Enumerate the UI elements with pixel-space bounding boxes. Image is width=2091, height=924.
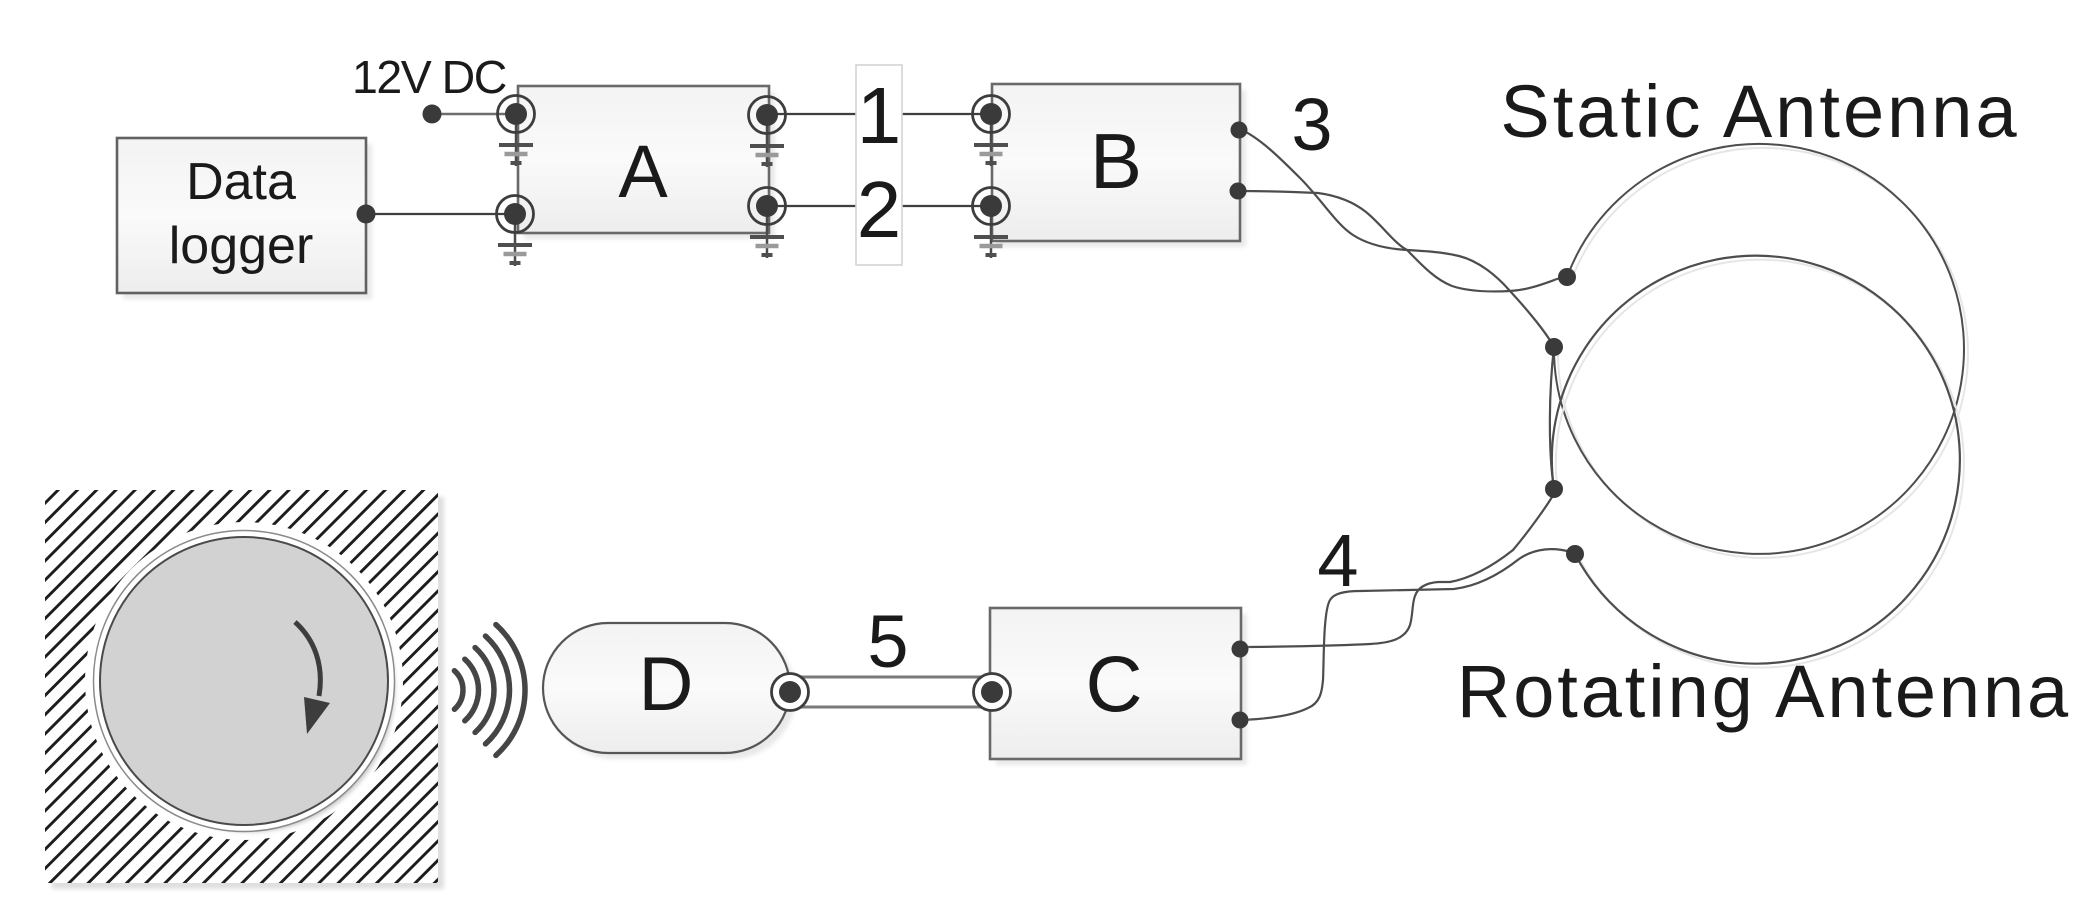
connector: B upper-left coax with ground bbox=[973, 96, 1010, 167]
svg-text:Data: Data bbox=[186, 153, 296, 211]
node: static loop terminal lower bbox=[1545, 338, 1563, 356]
rotating wheel hatched mount bbox=[45, 490, 444, 889]
node: C output dot lower bbox=[1232, 712, 1249, 729]
svg-text:D: D bbox=[639, 642, 694, 727]
connector: A lower-left coax with ground bbox=[497, 196, 534, 267]
svg-text:Rotating Antenna: Rotating Antenna bbox=[1457, 650, 2071, 733]
svg-text:5: 5 bbox=[867, 600, 908, 683]
connector: A upper-right coax with ground bbox=[749, 97, 786, 168]
link 1 label box bbox=[856, 65, 902, 265]
wire: twisted pair strand from C lower output to rotating loop lower terminal bbox=[1240, 549, 1575, 720]
wire: twisted pair strand from C upper output to rotating loop upper terminal bbox=[1239, 490, 1555, 647]
connector: A lower-right coax with ground bbox=[749, 188, 786, 259]
node: B output dot upper bbox=[1231, 122, 1248, 139]
svg-text:12V DC: 12V DC bbox=[352, 51, 506, 103]
node: rotating loop terminal lower bbox=[1566, 545, 1584, 563]
coax cable 5 from D to C (upper line) bbox=[795, 676, 988, 679]
connector: C input coax bbox=[974, 674, 1011, 711]
node: rotating loop terminal upper bbox=[1545, 480, 1563, 498]
connector: D output coax bbox=[772, 674, 809, 711]
wire: twisted pair strand from B lower output to static loop lower terminal bbox=[1240, 129, 1554, 347]
rotating wheel shadow bbox=[107, 544, 395, 832]
wire: A right to B left, line 2 bbox=[767, 205, 991, 207]
svg-text:Static Antenna: Static Antenna bbox=[1500, 70, 2019, 153]
svg-text:4: 4 bbox=[1317, 519, 1358, 602]
module B box bbox=[992, 84, 1246, 247]
svg-text:2: 2 bbox=[857, 165, 902, 254]
svg-text:3: 3 bbox=[1291, 83, 1332, 166]
wire: data logger to module A lower connector bbox=[366, 213, 515, 215]
svg-text:logger: logger bbox=[169, 217, 314, 275]
rotating wheel clearance bbox=[85, 522, 403, 840]
connector: A upper-left coax with ground bbox=[498, 96, 535, 167]
rotating antenna loop bbox=[1552, 256, 1960, 664]
svg-text:1: 1 bbox=[857, 71, 902, 160]
reader module D stadium bbox=[543, 623, 796, 759]
rotating wheel outer ring bbox=[94, 531, 395, 832]
node: data logger output junction dot bbox=[357, 205, 376, 224]
module C box bbox=[990, 608, 1247, 765]
svg-text:B: B bbox=[1090, 117, 1142, 205]
node: static loop terminal upper bbox=[1558, 268, 1576, 286]
module A box bbox=[518, 86, 775, 239]
rotating wheel disk bbox=[100, 537, 388, 825]
wire: A right to B left, line 1 bbox=[767, 113, 991, 115]
svg-text:C: C bbox=[1085, 639, 1142, 728]
node: C output dot upper bbox=[1232, 641, 1249, 658]
wireless waves from wheel to reader D bbox=[454, 625, 525, 756]
wire: 12V DC feed to module A upper connector bbox=[432, 113, 516, 115]
wire: twisted pair strand from B upper output to static loop upper terminal bbox=[1239, 191, 1567, 291]
wire: link between loop feed points B and C bbox=[1550, 347, 1554, 489]
data logger box bbox=[117, 138, 372, 299]
rotating antenna loop shadow bbox=[1556, 260, 1964, 668]
rotation direction arrow bbox=[295, 622, 330, 734]
node: 12V DC terminal dot bbox=[423, 105, 442, 124]
static antenna loop bbox=[1554, 144, 1964, 554]
static antenna loop shadow bbox=[1558, 148, 1968, 558]
connector: B lower-left coax with ground bbox=[973, 188, 1010, 259]
coax cable 5 from D to C (lower line) bbox=[795, 706, 988, 709]
node: B output dot lower bbox=[1230, 183, 1247, 200]
svg-text:A: A bbox=[618, 130, 668, 213]
